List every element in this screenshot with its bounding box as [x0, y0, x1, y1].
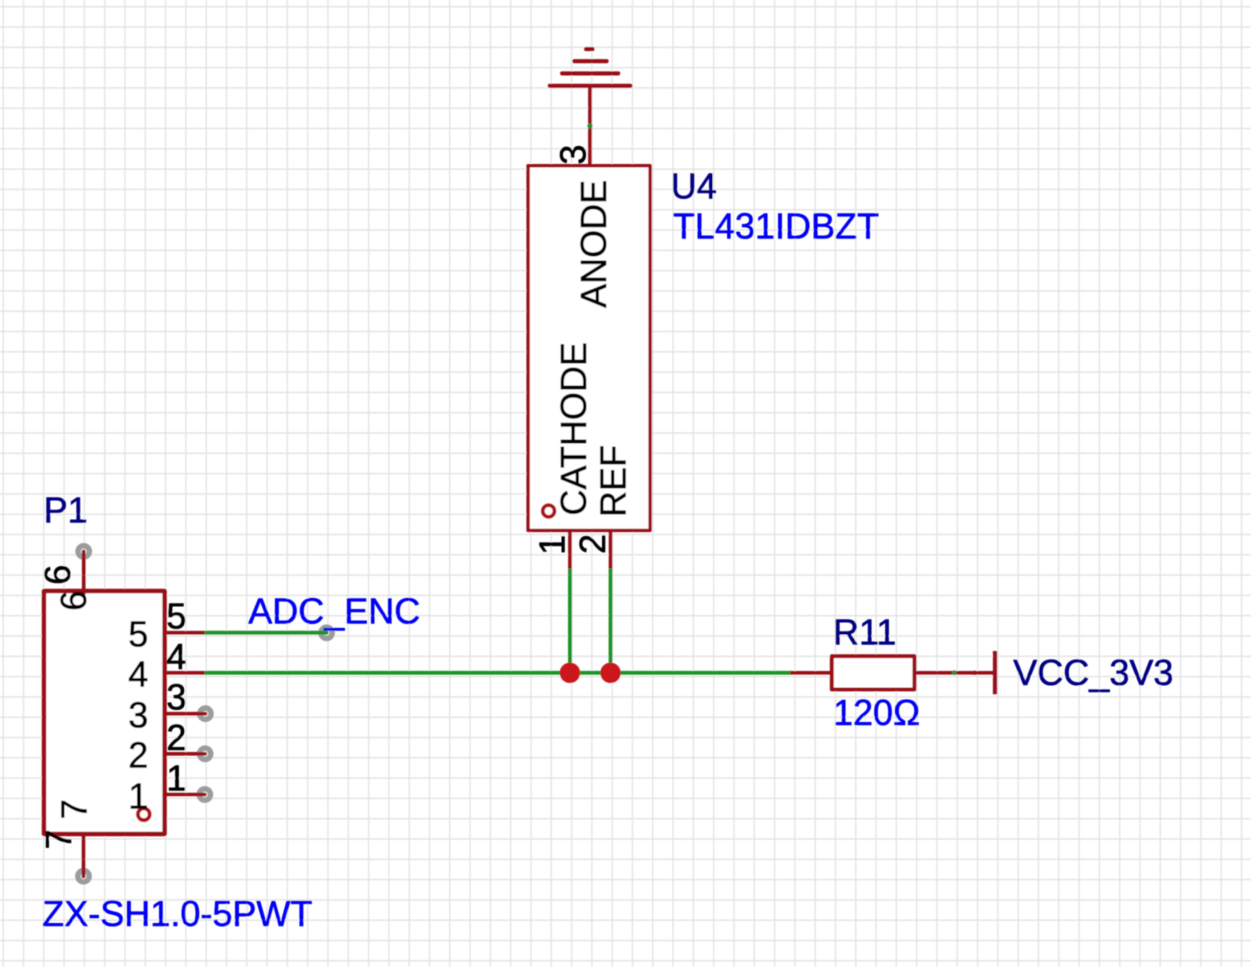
svg-text:2: 2	[128, 735, 148, 776]
svg-text:120Ω: 120Ω	[833, 692, 920, 733]
U4 pin 2 lead	[609, 530, 613, 568]
svg-text:2: 2	[166, 717, 186, 758]
P1 pin 6 end dot	[78, 546, 89, 557]
P1 pin 1 end dot	[199, 789, 210, 800]
U4 pin 1 marker circle	[543, 505, 555, 517]
power flag VCC_3V3 bar	[993, 651, 997, 694]
wire joint dot GND/U4.3	[587, 124, 592, 129]
connector P1 body	[44, 591, 165, 834]
svg-text:VCC_3V3: VCC_3V3	[1013, 652, 1173, 693]
ADC_ENC anchor dot	[321, 627, 332, 638]
svg-text:7: 7	[38, 829, 79, 849]
P1 pin 6 lead	[82, 551, 86, 594]
P1 pin 5 lead	[167, 631, 205, 635]
junction dot B	[600, 663, 620, 683]
P1 pin 1 marker circle	[138, 808, 150, 820]
wire main net horizontal	[205, 671, 792, 675]
P1 pin 2 end dot	[199, 748, 210, 759]
svg-text:TL431IDBZT: TL431IDBZT	[673, 206, 879, 247]
P1 pin 3 end dot	[200, 708, 211, 719]
svg-text:6: 6	[53, 591, 94, 611]
svg-text:1: 1	[166, 758, 186, 799]
svg-text:3: 3	[166, 677, 186, 718]
P1 pin 4 lead	[167, 671, 205, 675]
svg-text:CATHODE: CATHODE	[553, 342, 594, 515]
R11 joint dot	[952, 670, 957, 675]
svg-text:5: 5	[128, 614, 148, 655]
wire GND to U4 pin 3	[588, 126, 592, 166]
U4 pin 1 lead	[568, 530, 572, 568]
ground symbol GND	[550, 49, 631, 126]
junction dot A	[560, 663, 580, 683]
svg-text:ZX-SH1.0-5PWT: ZX-SH1.0-5PWT	[42, 893, 312, 934]
svg-text:ANODE: ANODE	[573, 180, 614, 308]
svg-text:ADC_ENC: ADC_ENC	[248, 590, 420, 631]
resistor R11 body	[832, 656, 915, 689]
svg-text:1: 1	[128, 775, 148, 816]
svg-text:5: 5	[166, 596, 186, 637]
svg-text:U4: U4	[671, 166, 717, 207]
svg-text:1: 1	[532, 535, 573, 555]
svg-text:4: 4	[128, 654, 148, 695]
P1 pin 1 lead	[167, 793, 205, 797]
svg-text:REF: REF	[593, 445, 634, 517]
P1 pin 3 lead	[167, 712, 206, 716]
svg-text:P1: P1	[44, 490, 88, 531]
P1 pin 7 lead	[82, 836, 86, 876]
wire U4 pin 2 to net	[609, 569, 613, 673]
svg-text:R11: R11	[833, 611, 896, 652]
svg-text:3: 3	[552, 145, 593, 165]
svg-text:3: 3	[128, 695, 148, 736]
wire U4 pin 1 to net	[568, 569, 572, 673]
wire ADC_ENC	[205, 631, 327, 635]
R11 right lead	[914, 671, 995, 675]
svg-text:6: 6	[37, 565, 78, 585]
R11 left lead	[792, 671, 832, 675]
P1 pin 2 lead	[167, 752, 205, 756]
svg-text:2: 2	[572, 534, 613, 554]
IC U4 body	[528, 166, 650, 531]
P1 pin 7 end dot	[78, 871, 89, 882]
svg-text:7: 7	[54, 799, 95, 819]
svg-text:4: 4	[166, 636, 186, 677]
